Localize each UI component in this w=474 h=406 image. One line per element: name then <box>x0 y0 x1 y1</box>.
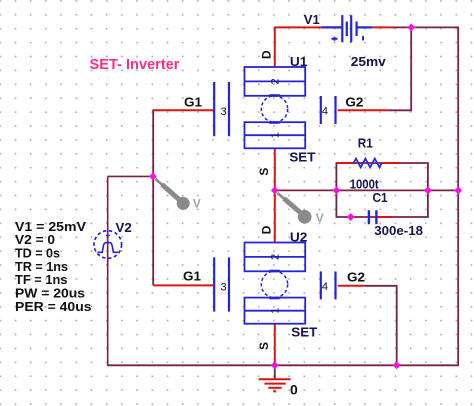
wire RC loop rectangle <box>336 163 428 217</box>
svg-text:300e-18: 300e-18 <box>374 223 423 238</box>
voltage probe V at output node <box>278 193 324 225</box>
svg-text:SET: SET <box>291 325 317 340</box>
svg-text:2: 2 <box>270 254 282 260</box>
wire ground stub <box>274 365 276 379</box>
wire battery right pin red segment <box>372 26 394 28</box>
svg-text:V: V <box>316 211 324 225</box>
wire G2 of U1 red pin segment <box>338 109 388 111</box>
svg-text:3: 3 <box>221 106 227 118</box>
wire bottom horizontal <box>108 364 459 366</box>
svg-text:1: 1 <box>270 132 282 138</box>
wire top from D of U1 to battery (red pin segment) <box>275 26 322 28</box>
svg-text:C1: C1 <box>373 190 388 205</box>
wire G2 of U1 horizontal dark part <box>388 109 412 111</box>
svg-text:R1: R1 <box>358 136 373 151</box>
svg-text:SET- Inverter: SET- Inverter <box>90 56 180 73</box>
wire drop from top to G2 of U1 <box>410 27 412 110</box>
junction at S of U1 output node <box>271 186 279 194</box>
svg-text:V2: V2 <box>116 220 132 235</box>
svg-text:1: 1 <box>270 308 282 314</box>
junction at C1 left pin <box>347 213 355 221</box>
junction at RC left <box>332 186 340 194</box>
wire top right horizontal <box>393 26 459 28</box>
wire S of U1 to D of U2 red vertical <box>274 148 276 243</box>
wire V2 vertical branch <box>107 176 109 366</box>
svg-text:0: 0 <box>290 381 298 397</box>
wire probe1 branch horizontal to V2 <box>108 175 154 177</box>
svg-text:D: D <box>259 225 273 234</box>
svg-text:S: S <box>257 168 271 176</box>
junction at ground node <box>271 361 279 369</box>
wire S pin of U2 red vertical <box>274 324 276 366</box>
wire G1 of U2 red pin segment <box>153 284 214 286</box>
resistor R1 <box>337 159 401 168</box>
wire left vertical from G1 U1 down to G1 U2 <box>152 109 154 285</box>
svg-text:G1: G1 <box>183 268 201 283</box>
wire G2 of U2 red pin segment <box>338 285 364 287</box>
svg-text:SET: SET <box>289 149 315 164</box>
svg-text:U1: U1 <box>290 54 308 69</box>
svg-text:G2: G2 <box>345 95 363 110</box>
svg-text:G2: G2 <box>347 270 365 285</box>
svg-text:4: 4 <box>322 106 328 118</box>
svg-text:PER = 40us: PER = 40us <box>15 299 92 314</box>
wire G2 of U2 dark horizontal and drop to bottom <box>364 286 397 366</box>
wire right edge vertical <box>457 27 459 366</box>
svg-text:S: S <box>257 342 271 350</box>
svg-text:4: 4 <box>322 281 328 293</box>
wire D pin of U1 red vertical <box>274 27 276 68</box>
V2 parameter list <box>15 219 92 314</box>
svg-text:D: D <box>259 50 273 59</box>
svg-text:V: V <box>193 197 201 211</box>
op U1 SET transistor body <box>214 67 335 148</box>
junction at right edge mid <box>454 186 462 194</box>
junction at G2 U2 bottom <box>393 361 401 369</box>
svg-text:3: 3 <box>221 281 227 293</box>
voltage probe V at node between G1s <box>156 179 201 211</box>
junction at top right battery to G2 drop <box>407 23 415 31</box>
wire middle horizontal node S-D <box>275 189 458 191</box>
capacitor C1 <box>369 210 392 224</box>
ground 0 <box>259 379 291 391</box>
wire G1 of U1 red pin segment <box>153 109 214 111</box>
battery V1 <box>322 15 372 42</box>
op U2 SET transistor body <box>214 243 335 324</box>
svg-text:U2: U2 <box>290 230 308 245</box>
junction at RC right <box>424 186 432 194</box>
svg-text:G1: G1 <box>184 95 202 110</box>
svg-text:V1: V1 <box>304 12 320 27</box>
junction at probe1 node <box>149 172 157 180</box>
svg-text:25mv: 25mv <box>351 54 387 69</box>
svg-text:2: 2 <box>270 78 282 84</box>
svg-text:1000t: 1000t <box>350 176 380 191</box>
source V2 pulse <box>94 231 122 259</box>
